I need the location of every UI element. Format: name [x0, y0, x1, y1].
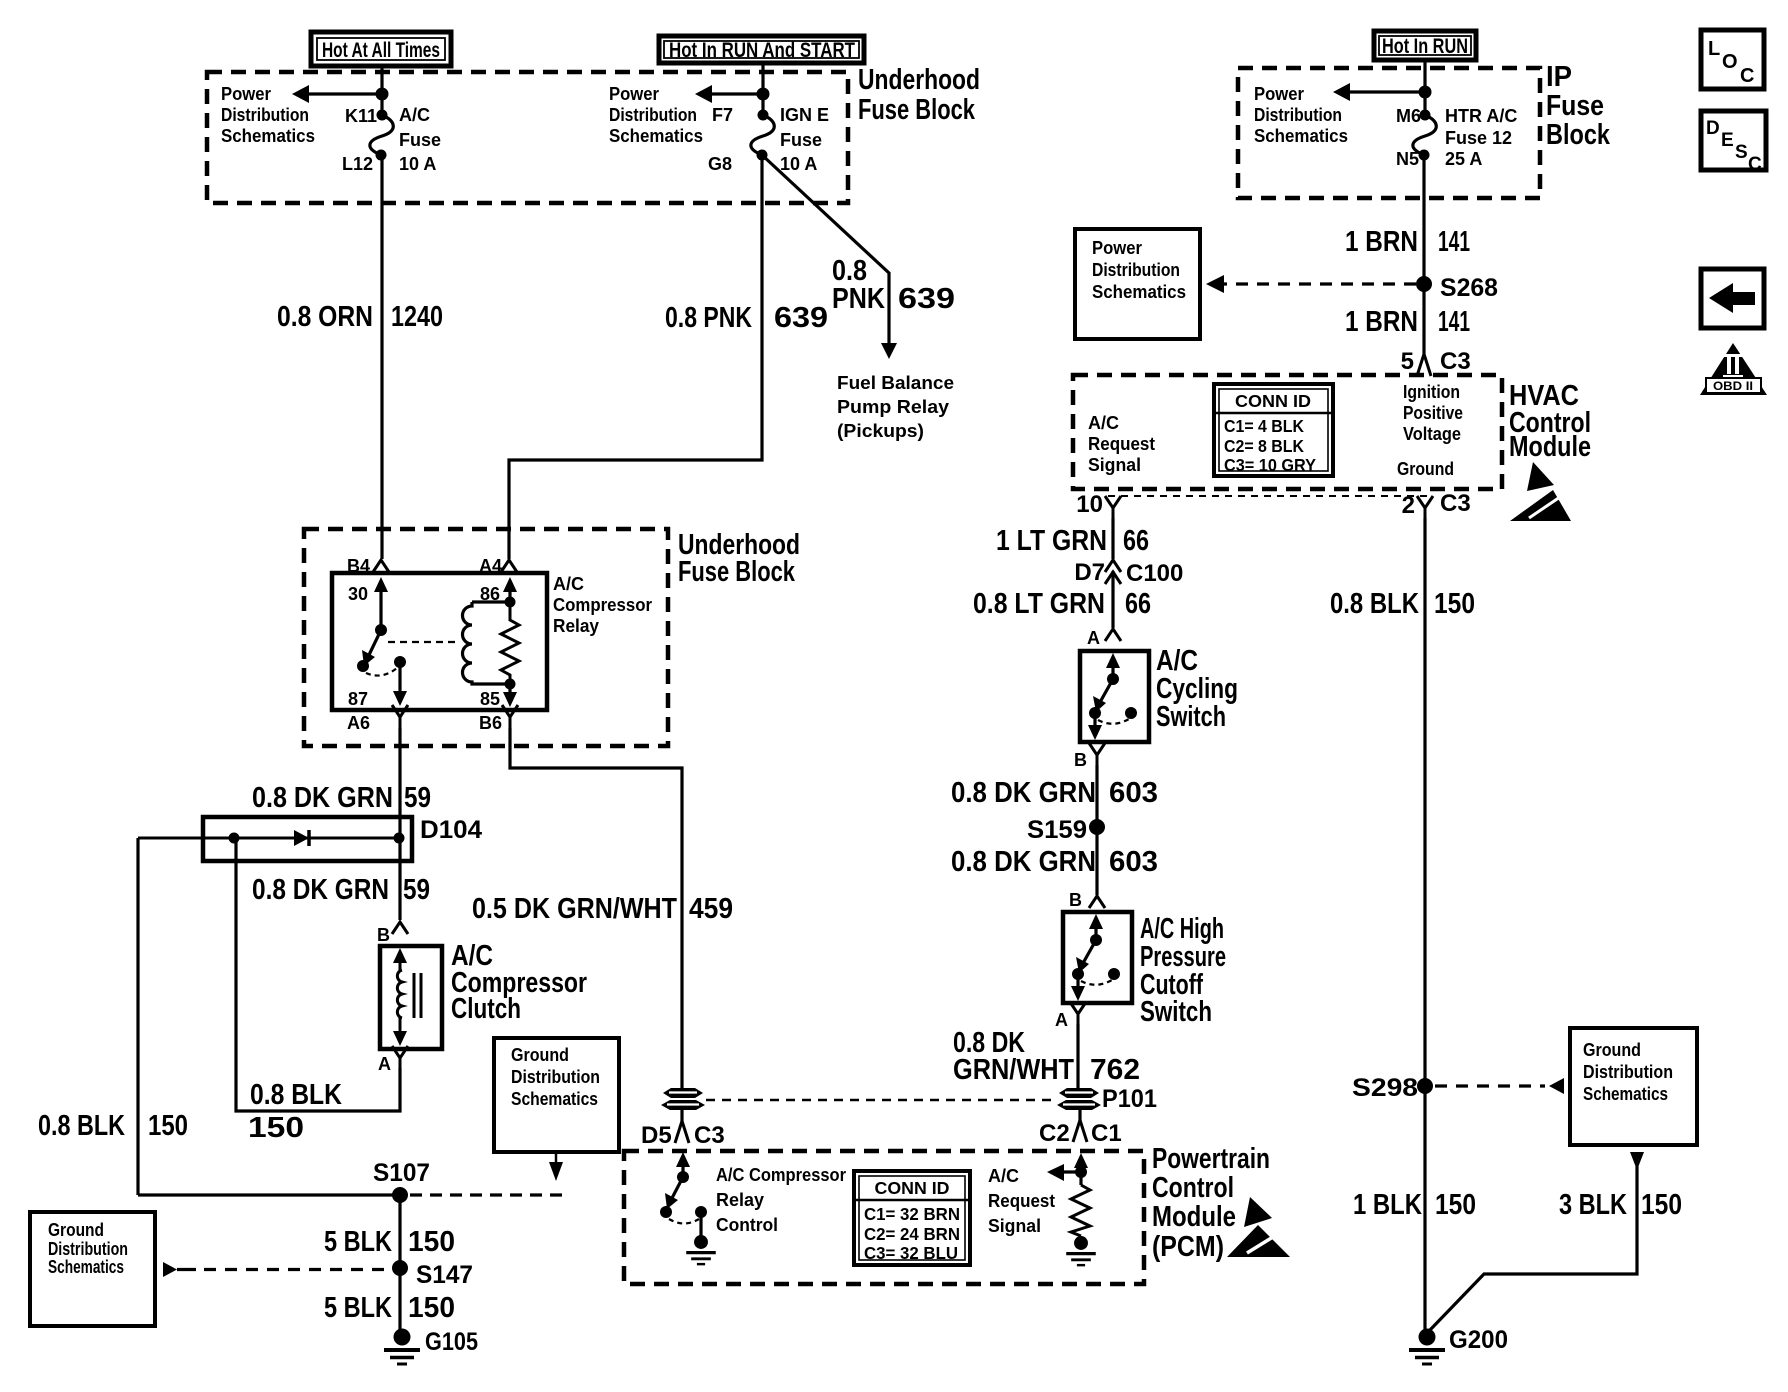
- wire A6 to D104: [398, 728, 401, 817]
- svg-text:S147: S147: [416, 1261, 473, 1289]
- svg-text:S: S: [1735, 142, 1748, 163]
- wire label 0.8 ORN 1240: [277, 301, 443, 333]
- svg-text:E: E: [1721, 130, 1734, 151]
- wire 10 down to C100: [1111, 518, 1114, 559]
- svg-text:762: 762: [1090, 1054, 1140, 1086]
- arrow to Power Distribution Schematics: [292, 85, 383, 103]
- svg-text:Distribution: Distribution: [1092, 260, 1180, 280]
- svg-text:Distribution: Distribution: [48, 1239, 128, 1259]
- OBD II icon: [1700, 343, 1767, 395]
- wire label 0.8 LT GRN 66: [973, 588, 1151, 620]
- svg-text:Schematics: Schematics: [511, 1089, 598, 1109]
- A/C High Pressure Cutoff Switch label: [1140, 913, 1226, 1028]
- svg-text:2: 2: [1402, 492, 1415, 519]
- arrow to Power Distribution Schematics: [1333, 83, 1425, 101]
- Ignition Positive Voltage label: [1403, 382, 1463, 444]
- splice S298: [1417, 1078, 1433, 1094]
- pin B6 connector: [502, 705, 518, 728]
- svg-text:B: B: [377, 925, 390, 945]
- svg-text:D7: D7: [1074, 559, 1105, 586]
- svg-text:59: 59: [403, 874, 430, 906]
- svg-text:B: B: [1069, 890, 1082, 910]
- Underhood Fuse Block title: [858, 64, 980, 126]
- relay pin 85 arrow: [480, 684, 517, 709]
- svg-text:Request: Request: [988, 1191, 1055, 1211]
- svg-text:C1= 32 BRN: C1= 32 BRN: [864, 1204, 960, 1224]
- PCM dashed box: [624, 1151, 1144, 1284]
- svg-text:Switch: Switch: [1156, 701, 1226, 733]
- svg-text:C: C: [1740, 65, 1754, 87]
- svg-text:P101: P101: [1102, 1085, 1157, 1113]
- svg-text:A: A: [1087, 628, 1100, 648]
- svg-text:Power: Power: [221, 84, 271, 104]
- svg-text:150: 150: [408, 1292, 455, 1324]
- A/C cycling switch box: [1080, 651, 1149, 742]
- Power Distribution Schematics note (middle): [609, 84, 703, 146]
- diode D104 box: [203, 817, 412, 861]
- splice S107: [392, 1187, 408, 1203]
- bulkhead connector (left): [661, 1088, 705, 1110]
- wire from Hot In RUN down to fuse: [1423, 60, 1426, 115]
- splice S147: [392, 1260, 408, 1276]
- wire into PCM pin C2/C1: [1078, 1108, 1081, 1120]
- A/C request signal input arrow: [1047, 1153, 1088, 1185]
- dashed connector line to P101: [706, 1099, 1057, 1102]
- dashed arrow S298 to ground dist schematics: [1435, 1078, 1564, 1094]
- svg-text:F7: F7: [712, 105, 733, 125]
- pin B4 connector: [373, 560, 389, 572]
- svg-text:OBD II: OBD II: [1713, 379, 1753, 393]
- svg-text:Schematics: Schematics: [609, 126, 703, 146]
- arrow from right ground box down to 3 BLK wire: [1630, 1152, 1644, 1170]
- left diode branch down to ground line: [136, 838, 139, 1195]
- svg-text:A/C: A/C: [399, 105, 430, 125]
- pin A4 connector: [501, 560, 517, 572]
- svg-text:1240: 1240: [391, 301, 443, 333]
- underhood fuse block dashed box (relay): [304, 529, 668, 746]
- svg-text:0.8 PNK: 0.8 PNK: [665, 302, 752, 334]
- svg-text:0.8 DK GRN: 0.8 DK GRN: [252, 874, 389, 906]
- LOC icon: [1701, 30, 1764, 89]
- PCM relay control switch: [660, 1152, 707, 1237]
- svg-text:85: 85: [480, 689, 500, 709]
- wire label 0.8 DK GRN 59 (below D104): [252, 874, 430, 906]
- svg-text:Distribution: Distribution: [1583, 1062, 1673, 1082]
- wire S107 to S147: [398, 1195, 401, 1268]
- svg-text:Fuse: Fuse: [1546, 90, 1604, 122]
- svg-text:Control: Control: [716, 1215, 778, 1235]
- svg-text:Module: Module: [1509, 431, 1591, 463]
- svg-text:C: C: [1748, 154, 1762, 175]
- svg-text:150: 150: [248, 1112, 304, 1144]
- A/C fuse K11/L12: [370, 110, 393, 161]
- svg-text:1 BRN: 1 BRN: [1345, 306, 1418, 338]
- Fuel Balance Pump Relay (Pickups) note: [837, 373, 954, 441]
- dashed arrow S268 to power dist schematics: [1206, 275, 1416, 293]
- wire label 0.8 DK GRN 59: [252, 782, 431, 814]
- relay pin 87 arrow: [348, 662, 407, 709]
- svg-text:A: A: [378, 1054, 391, 1074]
- svg-text:K11: K11: [345, 106, 377, 126]
- connector C2 C1: [1073, 1120, 1087, 1142]
- svg-text:S268: S268: [1440, 274, 1498, 302]
- svg-text:Hot In RUN: Hot In RUN: [1382, 35, 1468, 58]
- wire L12 down to relay pin B4: [380, 155, 383, 559]
- wire G8 down, left, down to relay pin A4: [509, 155, 762, 559]
- svg-text:Positive: Positive: [1403, 403, 1463, 423]
- label box "Hot In RUN": [1374, 31, 1476, 60]
- Underhood Fuse Block title (relay box): [678, 529, 800, 588]
- svg-text:Fuse: Fuse: [399, 130, 441, 150]
- svg-text:10 A: 10 A: [780, 154, 817, 174]
- clutch pin B connector: [392, 922, 408, 934]
- wire 2 C3 down to S298: [1423, 518, 1426, 1086]
- connector 10 (HVAC bottom left): [1105, 496, 1121, 519]
- svg-text:A4: A4: [479, 556, 502, 576]
- wire label 3 BLK 150: [1559, 1189, 1682, 1221]
- Powertrain Control Module (PCM) title: [1152, 1143, 1270, 1263]
- svg-text:G105: G105: [425, 1328, 478, 1356]
- svg-text:639: 639: [774, 302, 828, 334]
- IGN E fuse F7/G8: [751, 110, 774, 161]
- svg-text:B: B: [1074, 750, 1087, 770]
- bulkhead connector P101: [1057, 1088, 1101, 1110]
- A/C Compressor Clutch label: [451, 940, 587, 1025]
- svg-text:Schematics: Schematics: [1583, 1084, 1668, 1104]
- relay coil resistor: [501, 602, 519, 684]
- wire B6 down, right, down to bulkhead connector: [510, 728, 682, 1088]
- CONN ID table (HVAC): [1214, 384, 1333, 476]
- wire N5 down to HVAC module: [1422, 155, 1425, 354]
- node at top of IGN E fuse: [757, 88, 770, 101]
- svg-text:(PCM): (PCM): [1152, 1231, 1224, 1263]
- pin B connector (cycling switch): [1089, 743, 1105, 766]
- A/C Compressor Relay Control label: [716, 1165, 846, 1235]
- wire label 0.8 DK GRN 603 (lower): [951, 846, 1158, 878]
- svg-text:Request: Request: [1088, 434, 1155, 454]
- svg-text:M6: M6: [1396, 106, 1421, 126]
- inline connector C100: [1074, 559, 1183, 587]
- svg-text:Hot At All Times: Hot At All Times: [322, 39, 440, 62]
- svg-text:A/C: A/C: [553, 574, 584, 594]
- ground symbol (PCM request): [1066, 1236, 1096, 1265]
- svg-text:Fuse Block: Fuse Block: [678, 556, 796, 588]
- svg-text:C2: C2: [1039, 1120, 1070, 1147]
- svg-text:59: 59: [404, 782, 431, 814]
- svg-text:66: 66: [1123, 525, 1149, 557]
- svg-text:C1= 4 BLK: C1= 4 BLK: [1224, 416, 1304, 436]
- diagonal branch wire to fuel balance pump relay: [762, 155, 889, 344]
- svg-text:C100: C100: [1126, 560, 1183, 587]
- svg-text:141: 141: [1438, 226, 1470, 258]
- svg-text:Underhood: Underhood: [858, 64, 980, 96]
- svg-text:Control: Control: [1152, 1172, 1234, 1204]
- wire label 0.8 BLK 150 (right chain): [1330, 588, 1475, 620]
- svg-text:150: 150: [148, 1110, 188, 1142]
- svg-text:Relay: Relay: [553, 616, 599, 636]
- svg-text:Powertrain: Powertrain: [1152, 1143, 1270, 1175]
- svg-text:L: L: [1708, 38, 1720, 60]
- svg-text:A6: A6: [347, 713, 370, 733]
- relay mechanical dashed link: [388, 641, 458, 643]
- wire label 0.8 BLK 150 (left): [38, 1110, 188, 1142]
- ground symbol (PCM relay control): [686, 1235, 716, 1264]
- Ground Distribution Schematics box (middle): [494, 1038, 619, 1152]
- svg-text:87: 87: [348, 689, 368, 709]
- dashed link S107 to ground dist schematics: [410, 1193, 568, 1196]
- svg-text:Distribution: Distribution: [609, 105, 697, 125]
- fuse value A/C Fuse 10 A: [399, 105, 441, 174]
- svg-text:25 A: 25 A: [1445, 149, 1482, 169]
- wire from Hot At All Times down to fuse: [380, 66, 383, 115]
- HVAC dashed box: [1073, 375, 1502, 489]
- dashed arrow from left ground box to S147: [163, 1262, 392, 1277]
- svg-text:Signal: Signal: [1088, 455, 1141, 475]
- svg-text:Module: Module: [1152, 1201, 1236, 1233]
- svg-text:D104: D104: [420, 816, 482, 844]
- node at top of HTR A/C fuse: [1419, 86, 1432, 99]
- node at top of A/C fuse: [376, 88, 389, 101]
- label box "Hot At All Times": [311, 32, 451, 66]
- svg-text:Signal: Signal: [988, 1216, 1041, 1236]
- wire label 0.8 PNK 639: [665, 302, 828, 334]
- A/C Compressor Relay label: [553, 574, 652, 636]
- Power Distribution Schematics box (solid): [1075, 229, 1200, 339]
- wire S147 to G105: [398, 1268, 401, 1330]
- wire A down to P101: [1076, 1024, 1079, 1089]
- svg-text:150: 150: [1435, 1189, 1476, 1221]
- svg-text:0.8 ORN: 0.8 ORN: [277, 301, 373, 333]
- wire label 0.8 BLK 150 (clutch ground): [248, 1079, 342, 1144]
- svg-text:0.8 DK GRN: 0.8 DK GRN: [252, 782, 393, 814]
- svg-text:G8: G8: [708, 154, 732, 174]
- svg-text:1 LT GRN: 1 LT GRN: [996, 525, 1107, 557]
- svg-text:0.8 BLK: 0.8 BLK: [1330, 588, 1419, 620]
- svg-text:GRN/WHT: GRN/WHT: [953, 1054, 1074, 1086]
- Ground Distribution Schematics box (right): [1570, 1028, 1697, 1145]
- wire 3 BLK from box down, left, to G200: [1430, 1166, 1637, 1330]
- svg-text:L12: L12: [342, 154, 373, 174]
- svg-text:IP: IP: [1546, 61, 1572, 93]
- splice S159: [1089, 819, 1105, 835]
- svg-text:G200: G200: [1449, 1326, 1508, 1354]
- svg-text:Schematics: Schematics: [1254, 126, 1348, 146]
- svg-text:Fuse 12: Fuse 12: [1445, 128, 1512, 148]
- A/C high pressure cutoff switch box: [1063, 912, 1132, 1003]
- wire label 1 BLK 150: [1353, 1189, 1476, 1221]
- Power Distribution Schematics note (left): [221, 84, 315, 146]
- svg-text:S107: S107: [373, 1159, 430, 1187]
- ground bus line to S107: [138, 1193, 400, 1196]
- svg-text:S298: S298: [1352, 1074, 1418, 1102]
- svg-text:Ignition: Ignition: [1403, 382, 1460, 402]
- DESC icon: [1701, 111, 1766, 175]
- wire into PCM pin D5: [680, 1108, 683, 1121]
- svg-text:Ground: Ground: [48, 1220, 104, 1240]
- svg-text:Clutch: Clutch: [451, 993, 521, 1025]
- svg-text:Switch: Switch: [1140, 996, 1212, 1028]
- svg-text:Fuse: Fuse: [780, 130, 822, 150]
- svg-text:A/C Compressor: A/C Compressor: [716, 1165, 846, 1185]
- svg-text:0.5 DK GRN/WHT: 0.5 DK GRN/WHT: [472, 893, 677, 925]
- svg-text:603: 603: [1109, 777, 1158, 809]
- svg-text:Power: Power: [1092, 238, 1142, 258]
- A/C Cycling Switch label: [1156, 645, 1238, 733]
- svg-text:150: 150: [408, 1226, 455, 1258]
- wire label 5 BLK 150 (lower): [324, 1292, 455, 1324]
- svg-text:C3= 10 GRY: C3= 10 GRY: [1224, 455, 1316, 475]
- svg-text:HTR A/C: HTR A/C: [1445, 106, 1517, 126]
- svg-text:3 BLK: 3 BLK: [1559, 1189, 1627, 1221]
- svg-text:639: 639: [898, 283, 955, 315]
- svg-text:0.8 BLK: 0.8 BLK: [38, 1110, 125, 1142]
- cycling switch internals: [1088, 653, 1137, 740]
- connector 2 C3 (HVAC ground pin): [1402, 490, 1471, 519]
- svg-text:Pump Relay: Pump Relay: [837, 397, 949, 417]
- pin A6 connector: [392, 705, 408, 728]
- svg-text:Block: Block: [1546, 119, 1611, 151]
- label box "Hot In RUN And START": [659, 36, 864, 63]
- wire clutch A down, left, up to diode: [236, 838, 400, 1111]
- wire C100 down to cycling switch: [1111, 571, 1114, 628]
- IP Fuse Block title: [1546, 61, 1611, 151]
- relay coil: [463, 597, 516, 685]
- svg-text:Fuel Balance: Fuel Balance: [837, 373, 954, 393]
- svg-text:1 BLK: 1 BLK: [1353, 1189, 1422, 1221]
- svg-text:B4: B4: [347, 556, 370, 576]
- svg-text:Ground: Ground: [1397, 459, 1454, 479]
- svg-text:5: 5: [1401, 348, 1414, 375]
- svg-text:B6: B6: [479, 713, 502, 733]
- svg-text:0.8 DK GRN: 0.8 DK GRN: [951, 777, 1096, 809]
- underhood fuse block dashed box: [207, 72, 848, 203]
- svg-text:1 BRN: 1 BRN: [1345, 226, 1418, 258]
- svg-text:A/C: A/C: [988, 1166, 1019, 1186]
- svg-text:30: 30: [348, 584, 368, 604]
- svg-text:CONN ID: CONN ID: [875, 1178, 950, 1198]
- svg-text:Ground: Ground: [511, 1045, 569, 1065]
- svg-text:150: 150: [1434, 588, 1475, 620]
- svg-text:0.8 BLK: 0.8 BLK: [250, 1079, 342, 1111]
- wire S298 to G200: [1423, 1086, 1426, 1330]
- wire label 1 BRN 141: [1345, 226, 1470, 258]
- A/C Request Signal label (HVAC): [1088, 413, 1155, 475]
- fuse value IGN E Fuse 10 A: [780, 105, 829, 174]
- ground G105: [384, 1329, 420, 1365]
- svg-text:Distribution: Distribution: [1254, 105, 1342, 125]
- back-arrow icon: [1701, 269, 1764, 328]
- wire label 1 BRN 141 (lower): [1345, 306, 1470, 338]
- svg-text:Schematics: Schematics: [48, 1257, 124, 1277]
- splice S268: [1416, 276, 1432, 292]
- A/C compressor relay box: [332, 573, 547, 710]
- Ground Distribution Schematics box (bottom left): [30, 1212, 155, 1326]
- svg-text:Distribution: Distribution: [221, 105, 309, 125]
- pull-up resistor (PCM): [1071, 1185, 1090, 1236]
- CONN ID table (PCM): [854, 1171, 970, 1265]
- svg-text:(Pickups): (Pickups): [837, 421, 924, 441]
- clutch coil symbol: [393, 948, 421, 1046]
- wire label 0.8 DK GRN 603: [951, 777, 1158, 809]
- pin B connector (pressure switch): [1089, 896, 1105, 908]
- A/C Request Signal label (PCM): [988, 1166, 1055, 1236]
- HTR A/C fuse M6/N5: [1413, 110, 1436, 161]
- svg-text:CONN ID: CONN ID: [1235, 391, 1311, 411]
- svg-text:Schematics: Schematics: [1092, 282, 1186, 302]
- svg-text:Relay: Relay: [716, 1190, 764, 1210]
- svg-text:PNK: PNK: [832, 283, 885, 315]
- Power Distribution Schematics note (IP): [1254, 84, 1348, 146]
- diode line and symbol: [138, 830, 405, 846]
- svg-text:C3: C3: [1440, 490, 1471, 517]
- svg-text:D5: D5: [641, 1122, 672, 1149]
- HVAC internal connector rail (thin dashed): [1108, 495, 1430, 497]
- svg-text:459: 459: [689, 893, 733, 925]
- connector 5 C3 into HVAC: [1401, 348, 1471, 376]
- svg-text:Power: Power: [1254, 84, 1304, 104]
- svg-text:141: 141: [1438, 306, 1470, 338]
- ESD warning symbol (PCM): [1227, 1197, 1290, 1257]
- svg-text:Distribution: Distribution: [511, 1067, 600, 1087]
- ESD warning symbol (HVAC): [1510, 462, 1571, 521]
- ground G200: [1409, 1329, 1445, 1365]
- A/C Compressor Clutch box: [380, 946, 442, 1049]
- pin A connector (cycling switch): [1105, 629, 1121, 641]
- svg-text:O: O: [1722, 51, 1738, 73]
- svg-text:Fuse Block: Fuse Block: [858, 94, 976, 126]
- wire B down to S159: [1095, 765, 1098, 895]
- svg-text:603: 603: [1109, 846, 1158, 878]
- svg-text:0.8 DK GRN: 0.8 DK GRN: [951, 846, 1096, 878]
- pin A connector (pressure switch): [1070, 1002, 1086, 1025]
- svg-text:10: 10: [1076, 491, 1103, 518]
- svg-text:C2= 8 BLK: C2= 8 BLK: [1224, 436, 1304, 456]
- wire label 0.8 DK GRN/WHT 762: [953, 1027, 1140, 1086]
- svg-text:S159: S159: [1027, 816, 1087, 844]
- svg-text:IGN E: IGN E: [780, 105, 829, 125]
- wire label 0.8 PNK 639 (branch): [832, 255, 955, 315]
- clutch pin A connector: [392, 1046, 408, 1069]
- IP fuse block dashed box: [1238, 68, 1540, 198]
- wire through D104 down to clutch B: [398, 817, 401, 920]
- arrow to Power Distribution Schematics: [695, 85, 763, 103]
- svg-text:Compressor: Compressor: [553, 595, 652, 615]
- svg-text:Voltage: Voltage: [1403, 424, 1461, 444]
- svg-text:N5: N5: [1396, 149, 1419, 169]
- HVAC Control Module title: [1509, 380, 1591, 463]
- svg-text:Schematics: Schematics: [221, 126, 315, 146]
- wire label 1 LT GRN 66: [996, 525, 1149, 557]
- svg-text:C3= 32 BLU: C3= 32 BLU: [864, 1243, 958, 1263]
- svg-text:66: 66: [1125, 588, 1151, 620]
- wire label 5 BLK 150: [324, 1226, 455, 1258]
- svg-text:A/C: A/C: [1088, 413, 1119, 433]
- svg-text:C3: C3: [1440, 348, 1471, 375]
- svg-text:Power: Power: [609, 84, 659, 104]
- svg-text:C2= 24 BRN: C2= 24 BRN: [864, 1224, 960, 1244]
- relay armature: [357, 624, 406, 676]
- wire from label box down: [761, 63, 764, 115]
- svg-text:10 A: 10 A: [399, 154, 436, 174]
- svg-text:5 BLK: 5 BLK: [324, 1226, 392, 1258]
- relay pin 30 arrow: [348, 577, 388, 630]
- fuse value HTR A/C Fuse 12 25 A: [1445, 106, 1517, 169]
- svg-text:C1: C1: [1091, 1120, 1122, 1147]
- svg-text:A: A: [1055, 1010, 1068, 1030]
- svg-text:D: D: [1706, 118, 1720, 139]
- arrow from mid ground box down: [549, 1162, 563, 1181]
- pressure switch internals: [1071, 914, 1120, 1001]
